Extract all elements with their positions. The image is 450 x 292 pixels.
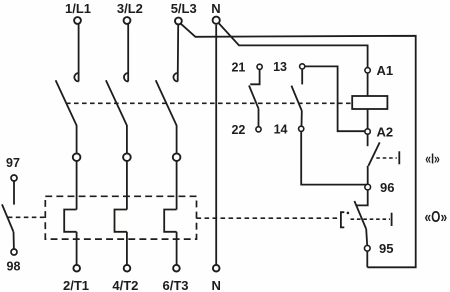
thermal relay box (dashed)	[45, 196, 196, 239]
wire A1 to coil	[367, 73, 369, 96]
contact 14 circle	[299, 126, 304, 131]
wire pole 2 to overload	[126, 161, 128, 210]
svg-text:«I»: «I»	[425, 151, 440, 167]
thermal trip linkage middle (dashed)	[197, 217, 340, 219]
wire pole 2 lower	[126, 125, 128, 153]
svg-text:13: 13	[273, 60, 287, 74]
svg-text:A1: A1	[377, 63, 394, 78]
svg-text:97: 97	[6, 156, 20, 170]
terminal N bottom circle	[213, 265, 220, 272]
svg-text:96: 96	[380, 180, 394, 195]
svg-text:6/T3: 6/T3	[162, 278, 188, 292]
stop contact blade (NC)	[354, 201, 366, 229]
wire 97 fixed	[13, 181, 15, 205]
svg-text:2/T1: 2/T1	[63, 278, 89, 292]
wire 21 fixed	[250, 70, 259, 85]
wire L3 input	[177, 25, 180, 82]
fixed contact hook pole 2	[124, 73, 128, 82]
svg-text:21: 21	[231, 61, 245, 75]
wire L2 input	[127, 24, 129, 81]
svg-text:A2: A2	[377, 124, 394, 139]
aux NO 13-14 blade	[291, 86, 302, 111]
svg-text:22: 22	[231, 123, 245, 137]
fixed contact hook pole 1	[74, 73, 78, 82]
terminal 95 circle	[364, 245, 370, 251]
wire 22	[258, 109, 260, 127]
svg-text:N: N	[211, 1, 220, 16]
wire 13 fixed	[301, 69, 303, 84]
wire to 2/T1	[76, 232, 78, 265]
junction circle pole 2	[123, 153, 131, 161]
wire 96 to stop contact	[356, 190, 368, 205]
terminal 96 circle	[365, 184, 371, 190]
breaker pole 2 moving blade	[106, 80, 127, 125]
contactor coil K	[352, 96, 387, 109]
wire 14 to 96	[301, 132, 367, 185]
terminal A1 circle	[365, 68, 370, 73]
wire 14	[301, 111, 303, 126]
wire start contact to 96	[367, 166, 369, 185]
start button blade (NO)	[368, 142, 379, 165]
wire N feed to coil A1	[219, 24, 368, 68]
contact 13 circle	[300, 64, 305, 69]
svg-text:5/L3: 5/L3	[171, 1, 197, 16]
svg-text:98: 98	[7, 259, 21, 273]
terminal 4/T2 circle	[124, 265, 131, 272]
thermal overload heater phase 2	[115, 210, 127, 232]
wire pole 3 to overload	[176, 161, 178, 210]
junction circle pole 3	[173, 153, 181, 161]
terminal 5/L3 circle	[175, 18, 182, 25]
terminal 2/T1 circle	[73, 265, 80, 272]
wire 13 to A2	[305, 66, 365, 131]
contact 22 circle	[256, 127, 261, 132]
svg-text:4/T2: 4/T2	[112, 278, 138, 292]
thermal trip linkage left (dashed)	[8, 216, 46, 218]
contact 98 circle	[11, 249, 17, 255]
wire N vertical	[215, 25, 217, 265]
wire L3 feed to control circuit	[181, 24, 416, 267]
wire 98	[13, 232, 15, 249]
terminal N top circle	[213, 17, 220, 24]
svg-text:N: N	[212, 278, 221, 292]
wire to 4/T2	[126, 232, 128, 265]
svg-text:14: 14	[274, 123, 288, 137]
stop actuator tick	[391, 213, 393, 226]
svg-text:1/L1: 1/L1	[65, 1, 91, 16]
wire to 6/T3	[176, 232, 178, 265]
wire 95 to corner	[366, 251, 368, 267]
svg-text:3/L2: 3/L2	[117, 1, 143, 16]
breaker pole 1 moving blade	[56, 80, 77, 125]
thermal overload heater phase 1	[64, 210, 76, 232]
svg-text:95: 95	[379, 241, 393, 256]
thermal overload heater phase 3	[164, 210, 176, 232]
terminal 6/T3 circle	[173, 265, 180, 272]
terminal A2 circle	[365, 129, 370, 134]
start button actuator tick	[398, 151, 400, 164]
thermal NO 97-98 blade	[2, 204, 13, 231]
junction circle pole 1	[73, 153, 81, 161]
wire A2 to start contact	[367, 134, 369, 146]
start button actuator (dashed)	[376, 157, 397, 159]
wire L1 input	[78, 24, 80, 81]
breaker mechanical linkage (dashed)	[66, 102, 352, 104]
wire pole 1 to overload	[76, 161, 78, 210]
wire coil to A2	[367, 109, 369, 129]
contact 21 circle	[257, 64, 262, 69]
contact 97 circle	[11, 175, 17, 181]
fixed contact hook pole 3	[173, 73, 177, 82]
trip latch bracket	[341, 212, 344, 227]
svg-text:«O»: «O»	[425, 209, 448, 226]
wire pole 3 lower	[176, 125, 178, 153]
wire stop contact to 95	[366, 229, 367, 246]
breaker pole 3 moving blade	[156, 80, 177, 125]
terminal 1/L1 circle	[74, 17, 81, 24]
terminal 3/L2 circle	[124, 17, 131, 24]
wire pole 1 lower	[76, 125, 78, 153]
trip pivot dot	[347, 212, 350, 215]
aux NC 21-22 blade	[249, 86, 259, 109]
stop/trip actuator (dashed)	[351, 218, 391, 220]
